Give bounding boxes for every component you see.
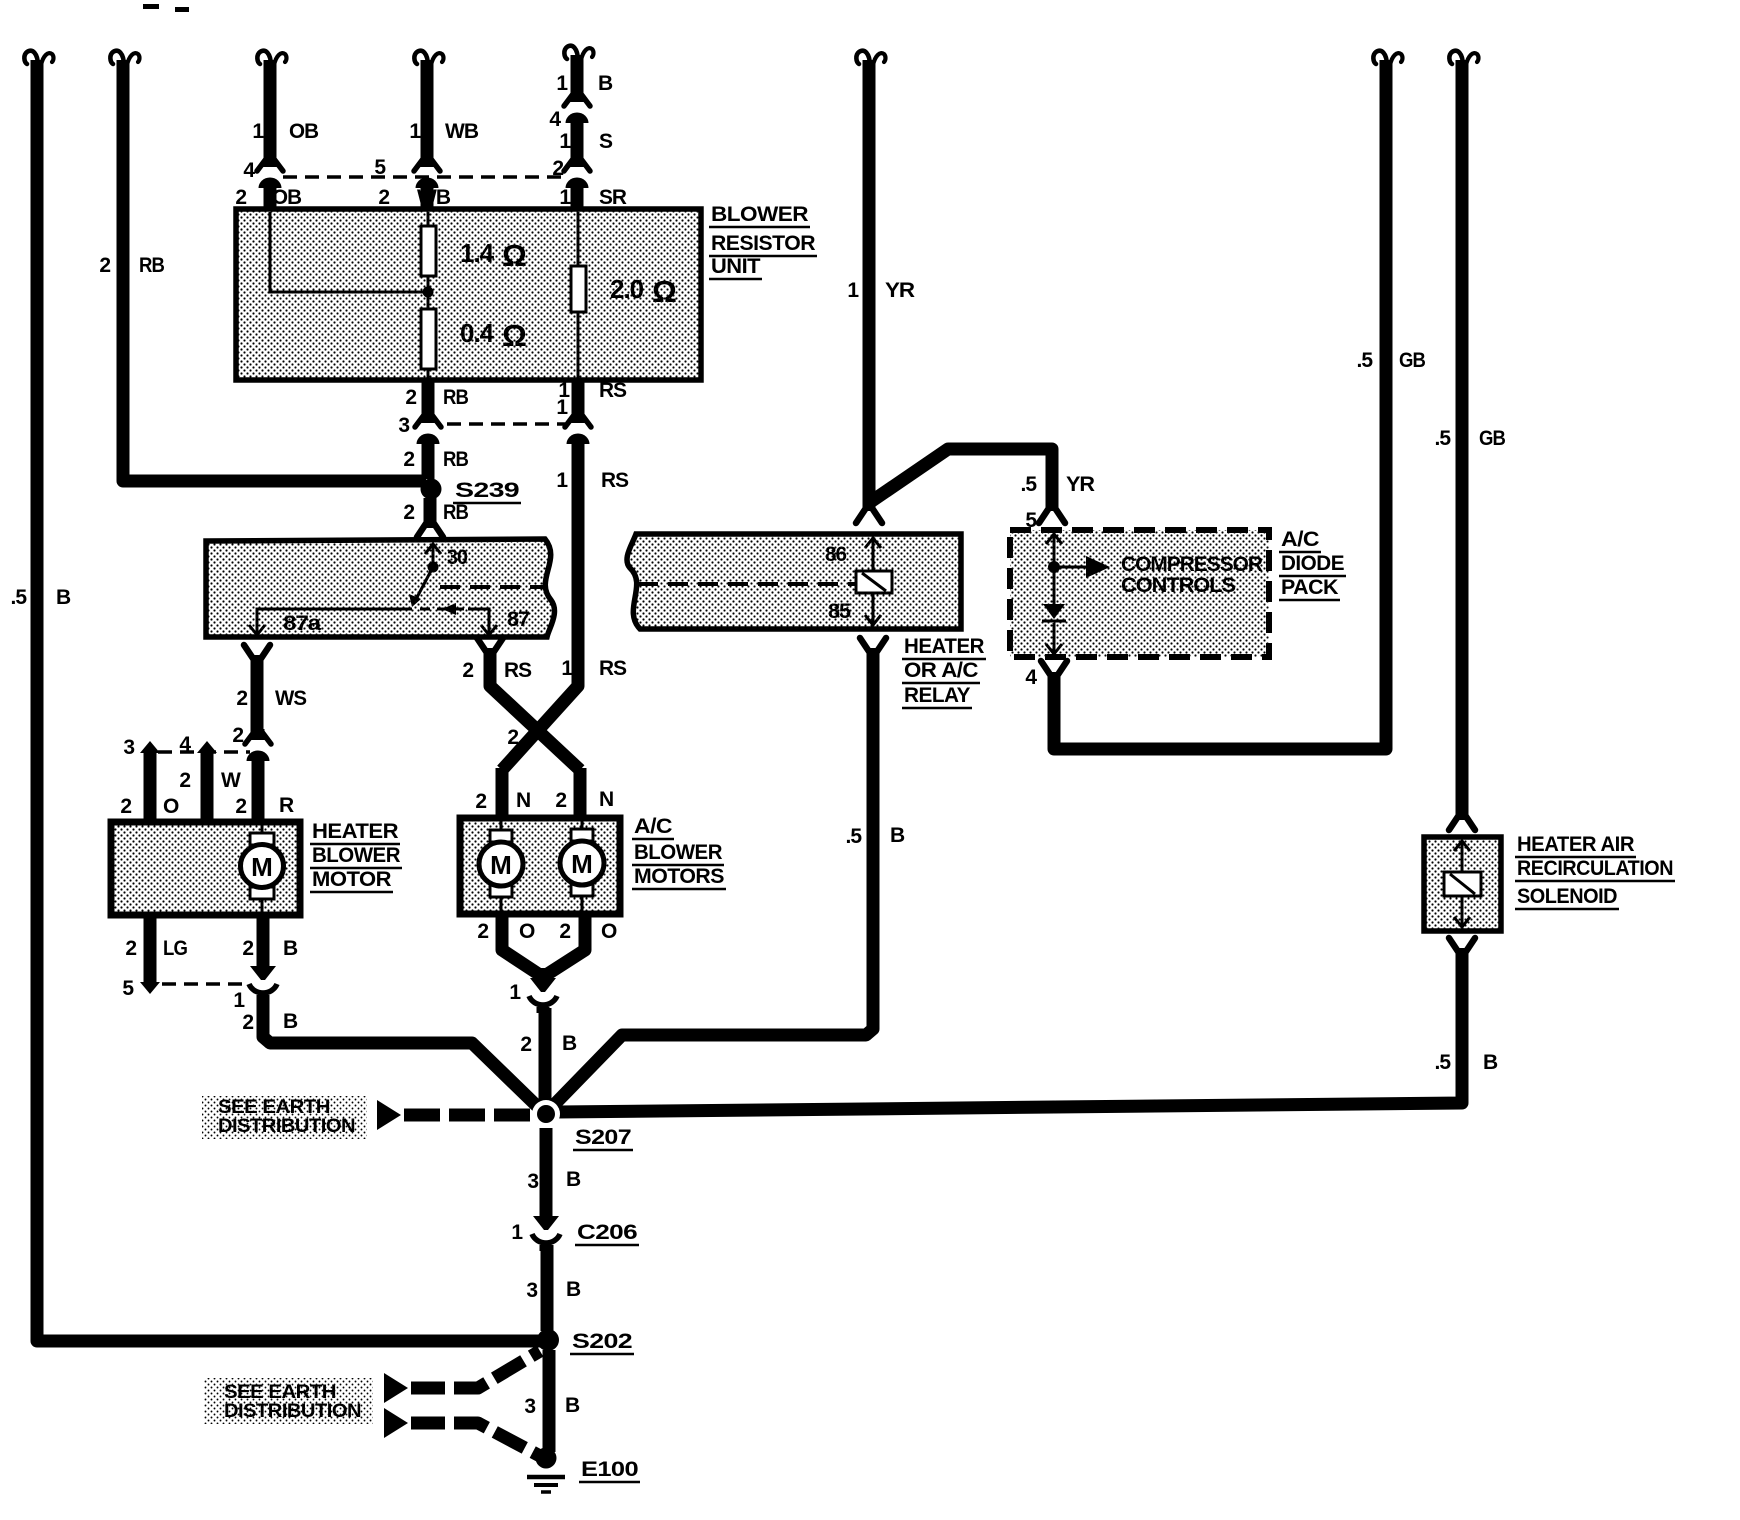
svg-text:.5: .5: [1434, 1051, 1451, 1074]
motor M A/C left: [479, 820, 523, 912]
svg-text:RS: RS: [601, 469, 629, 492]
svg-text:M: M: [490, 850, 512, 880]
svg-text:UNIT: UNIT: [711, 255, 761, 278]
wire 1 OB feed: [252, 51, 319, 165]
relay coil box: [627, 534, 961, 629]
solenoid coil: [1444, 840, 1481, 928]
splice S202: [537, 1329, 634, 1354]
svg-text:1: 1: [252, 120, 264, 143]
wire 1 WB feed: [409, 51, 479, 165]
svg-text:1: 1: [559, 186, 571, 209]
connector C206: [511, 1209, 639, 1251]
svg-text:A/C: A/C: [634, 815, 672, 838]
motor M A/C right: [560, 820, 604, 912]
svg-text:YR: YR: [1066, 473, 1095, 496]
svg-text:2.0: 2.0: [610, 274, 644, 304]
svg-text:BLOWER: BLOWER: [312, 844, 400, 867]
earth distribution reference 1: [202, 1096, 530, 1139]
svg-text:2: 2: [232, 724, 243, 747]
wire 2 RB connector to S239: [403, 438, 468, 479]
svg-text:O: O: [519, 920, 535, 943]
wire 2 WS relay 87a to connector: [236, 645, 307, 738]
connector 1 (A/C B): [509, 971, 557, 1013]
svg-text:5: 5: [122, 977, 134, 1000]
svg-text:.5: .5: [1020, 473, 1037, 496]
blower resistor unit box: [236, 209, 701, 380]
wire 1 RS connector to crossover: [502, 438, 629, 770]
connector 4 (OB): [243, 156, 283, 191]
svg-text:B: B: [56, 586, 71, 609]
relay terminal 87a: [249, 609, 412, 636]
relay coil: [856, 571, 892, 593]
connector 3 (RB): [398, 412, 441, 447]
svg-text:S207: S207: [575, 1126, 631, 1149]
svg-text:1: 1: [509, 981, 521, 1004]
heater motor stub 4 (W): [179, 733, 241, 824]
svg-text:W: W: [221, 769, 241, 792]
svg-text:WB: WB: [417, 186, 451, 209]
svg-text:.5: .5: [845, 825, 862, 848]
svg-text:2: 2: [507, 726, 518, 749]
relay movable contact: [409, 567, 433, 607]
svg-text:Ω: Ω: [502, 318, 526, 353]
connector pack dashed line: [283, 175, 562, 179]
splice S207: [532, 1100, 633, 1150]
svg-text:3: 3: [524, 1395, 535, 1418]
svg-text:1: 1: [847, 279, 859, 302]
label HEATER OR A/C RELAY: [902, 635, 986, 708]
label HEATER AIR RECIRCULATION SOLENOID: [1515, 833, 1675, 909]
wire 2 O left: [477, 914, 543, 977]
svg-text:OB: OB: [289, 120, 319, 143]
heater blower motor box: [111, 822, 300, 915]
svg-text:OB: OB: [272, 186, 302, 209]
svg-text:2: 2: [242, 937, 253, 960]
wire 2 RB resistor to connector: [405, 380, 468, 419]
heater motor stub 3 (O): [120, 736, 179, 824]
svg-text:1: 1: [409, 120, 421, 143]
svg-text:N: N: [599, 788, 613, 811]
svg-text:HEATER AIR: HEATER AIR: [1517, 833, 1634, 856]
svg-text:4: 4: [1025, 666, 1037, 689]
svg-text:B: B: [283, 1010, 298, 1033]
wire 3 B S202 to E100: [524, 1350, 580, 1452]
relay coil dashed link left: [440, 585, 548, 589]
svg-text:MOTORS: MOTORS: [634, 865, 724, 888]
svg-text:SEE EARTH: SEE EARTH: [224, 1382, 336, 1403]
svg-text:2: 2: [120, 795, 131, 818]
svg-text:O: O: [163, 795, 179, 818]
svg-text:C206: C206: [577, 1221, 637, 1244]
svg-text:4: 4: [549, 108, 561, 131]
svg-text:LG: LG: [163, 937, 188, 960]
svg-text:87a: 87a: [283, 612, 322, 635]
A/C diode pack box: [1010, 530, 1269, 657]
svg-text:RB: RB: [443, 501, 469, 524]
svg-text:YR: YR: [885, 279, 915, 302]
diode D1: [1042, 604, 1066, 655]
svg-text:B: B: [283, 937, 298, 960]
wire 2 N left: [475, 768, 530, 824]
resistor 1.4 ohm: [421, 212, 526, 292]
svg-text:1: 1: [559, 130, 571, 153]
wire 1 B feed: [556, 46, 613, 100]
wire 2 B heater motor to connector: [242, 915, 298, 961]
svg-text:GB: GB: [1399, 349, 1426, 372]
svg-text:PACK: PACK: [1281, 576, 1338, 599]
svg-text:HEATER: HEATER: [904, 635, 984, 658]
wire 2 RS relay 87 to crossover: [462, 638, 580, 770]
svg-text:2: 2: [559, 920, 570, 943]
motor M heater: [241, 824, 284, 913]
relay terminal 85: [828, 592, 881, 626]
svg-text:HEATER: HEATER: [312, 820, 398, 843]
wire 2 RB S239 to relay 30: [403, 498, 468, 537]
connector 4 (B-S): [549, 91, 590, 131]
wire 3 B C206 to S202: [526, 1245, 581, 1331]
wire 1 SR segment: [559, 182, 627, 212]
relay coil dashed line: [638, 582, 855, 586]
A/C blower motors box: [460, 818, 620, 914]
svg-text:S202: S202: [572, 1330, 632, 1353]
svg-text:WB: WB: [445, 120, 479, 143]
svg-text:2: 2: [477, 920, 488, 943]
svg-text:1: 1: [233, 989, 245, 1012]
svg-text:GB: GB: [1479, 427, 1506, 450]
svg-text:M: M: [571, 849, 593, 879]
svg-text:RELAY: RELAY: [904, 684, 970, 707]
connector 5 (WB): [374, 156, 440, 191]
svg-text:2: 2: [403, 501, 414, 524]
ground E100: [527, 1448, 640, 1493]
svg-text:B: B: [562, 1032, 577, 1055]
svg-text:E100: E100: [581, 1458, 638, 1481]
svg-text:86: 86: [825, 543, 846, 566]
relay terminal 30: [425, 543, 467, 573]
svg-text:2: 2: [179, 769, 190, 792]
svg-text:WS: WS: [275, 687, 307, 710]
heater motor stub 5 (LG): [122, 915, 187, 1000]
svg-text:2: 2: [125, 937, 136, 960]
relay terminal 86: [825, 537, 881, 571]
wire 2 B heater motor to S207: [242, 995, 541, 1110]
wire 2 R connector to heater motor: [235, 755, 294, 824]
relay terminal 87: [468, 608, 529, 636]
svg-text:BLOWER: BLOWER: [711, 203, 808, 226]
svg-text:COMPRESSOR: COMPRESSOR: [1121, 553, 1263, 576]
crossover node 2: [507, 726, 518, 749]
svg-text:CONTROLS: CONTROLS: [1121, 574, 1236, 597]
svg-text:B: B: [566, 1278, 581, 1301]
svg-text:Ω: Ω: [652, 274, 676, 309]
wire 3 B S207 to C206: [527, 1128, 581, 1218]
svg-text:B: B: [565, 1394, 580, 1417]
heater motor stub dashed link: [158, 750, 250, 754]
svg-text:RS: RS: [599, 657, 627, 680]
diode pack input node: [1046, 533, 1062, 604]
heater air recirculation solenoid box: [1424, 837, 1501, 931]
connector 2 (WS-R): [232, 724, 271, 764]
earth distribution reference 2: [204, 1378, 373, 1424]
svg-text:MOTOR: MOTOR: [312, 868, 391, 891]
relay energized contact dashed: [420, 603, 468, 615]
svg-text:OR A/C: OR A/C: [904, 659, 978, 682]
svg-text:85: 85: [828, 600, 851, 623]
svg-text:2: 2: [520, 1033, 531, 1056]
svg-text:O: O: [601, 920, 617, 943]
scan artifact marks: [143, 4, 189, 12]
svg-text:B: B: [890, 824, 905, 847]
svg-text:3: 3: [527, 1170, 538, 1193]
svg-text:4: 4: [243, 159, 255, 182]
relay switch box: [206, 539, 554, 637]
svg-text:3: 3: [123, 736, 134, 759]
svg-text:B: B: [598, 72, 613, 95]
svg-text:2: 2: [378, 186, 389, 209]
svg-text:S239: S239: [455, 479, 519, 502]
svg-text:3: 3: [398, 414, 409, 437]
wire OB internal branch: [270, 212, 434, 298]
svg-text:SR: SR: [599, 186, 627, 209]
resistor 0.4 ohm: [421, 292, 526, 380]
resistor 2.0 ohm: [571, 212, 676, 380]
svg-text:RB: RB: [443, 448, 469, 471]
svg-text:2: 2: [475, 790, 486, 813]
wire 2 O right: [543, 914, 617, 980]
wire .5 B relay 85 to S207: [551, 638, 905, 1108]
svg-text:3: 3: [526, 1279, 537, 1302]
label A/C BLOWER MOTORS: [632, 815, 726, 889]
svg-text:87: 87: [507, 608, 529, 631]
svg-text:A/C: A/C: [1281, 528, 1319, 551]
svg-text:1.4: 1.4: [460, 238, 495, 268]
svg-text:M: M: [251, 852, 273, 882]
wire 1 S segment: [559, 117, 613, 165]
wire 2 N right: [555, 768, 613, 824]
wire .5 B solenoid to S207: [557, 938, 1498, 1112]
svg-text:1: 1: [561, 657, 573, 680]
svg-text:SEE EARTH: SEE EARTH: [218, 1097, 330, 1118]
label HEATER BLOWER MOTOR: [310, 820, 402, 892]
connector 1 (RS): [556, 396, 591, 447]
svg-text:R: R: [279, 794, 294, 817]
wire 1 YR feed to relay 86: [847, 51, 915, 523]
svg-text:2: 2: [236, 687, 247, 710]
svg-text:RS: RS: [504, 659, 532, 682]
svg-text:DISTRIBUTION: DISTRIBUTION: [224, 1401, 361, 1422]
earth dashed branch to E100: [384, 1408, 540, 1456]
wire .5 GB feed to diode pack 4: [1054, 51, 1426, 749]
earth dashed branch to S202: [384, 1351, 540, 1403]
svg-text:RS: RS: [599, 379, 627, 402]
svg-text:.5: .5: [1356, 349, 1373, 372]
svg-text:B: B: [1483, 1051, 1498, 1074]
svg-text:RECIRCULATION: RECIRCULATION: [1517, 857, 1673, 880]
svg-text:0.4: 0.4: [460, 318, 495, 348]
svg-text:RESISTOR: RESISTOR: [711, 232, 815, 255]
svg-text:1: 1: [556, 396, 568, 419]
svg-text:1: 1: [556, 72, 568, 95]
svg-text:S: S: [599, 130, 613, 153]
svg-text:1: 1: [556, 469, 568, 492]
svg-text:2: 2: [462, 659, 473, 682]
heater motor stub dashed link 2: [162, 982, 250, 986]
wire 2 WB segment: [378, 182, 451, 212]
svg-text:2: 2: [242, 1011, 253, 1034]
label BLOWER RESISTOR UNIT: [709, 203, 817, 279]
svg-text:2: 2: [555, 789, 566, 812]
svg-text:1: 1: [511, 1221, 523, 1244]
svg-text:N: N: [516, 789, 530, 812]
connector 4 (diode pack): [1025, 661, 1067, 689]
connector 1 (heater B): [233, 959, 277, 1012]
inline connector dashed link: [447, 422, 565, 426]
svg-text:BLOWER: BLOWER: [634, 841, 722, 864]
wire 2 B A/C motors to S207: [520, 1008, 577, 1108]
connector 2 (S-SR): [552, 156, 590, 191]
wire 2 RB left feed to S239: [99, 51, 426, 481]
svg-text:2: 2: [99, 254, 110, 277]
svg-text:DISTRIBUTION: DISTRIBUTION: [218, 1116, 355, 1137]
svg-text:.5: .5: [10, 586, 27, 609]
wire 1 RS resistor to connector: [558, 379, 627, 419]
svg-text:2: 2: [235, 186, 246, 209]
svg-text:2: 2: [235, 795, 246, 818]
wire .5 YR branch to diode pack: [869, 449, 1095, 532]
label A/C DIODE PACK: [1279, 528, 1346, 600]
svg-text:30: 30: [447, 546, 467, 569]
svg-text:DIODE: DIODE: [1281, 552, 1344, 575]
svg-text:2: 2: [403, 448, 414, 471]
svg-text:SOLENOID: SOLENOID: [1517, 885, 1617, 908]
wire .5 B left feed: [10, 51, 540, 1341]
svg-text:2: 2: [405, 386, 416, 409]
svg-text:.5: .5: [1434, 427, 1451, 450]
splice S239: [421, 479, 522, 504]
wire .5 GB feed to solenoid: [1434, 51, 1505, 830]
svg-text:RB: RB: [443, 386, 469, 409]
svg-text:Ω: Ω: [502, 238, 526, 273]
svg-text:B: B: [566, 1168, 581, 1191]
wire 2 OB segment: [235, 182, 302, 212]
compressor controls arrow: [1054, 553, 1263, 597]
svg-text:RB: RB: [139, 254, 165, 277]
